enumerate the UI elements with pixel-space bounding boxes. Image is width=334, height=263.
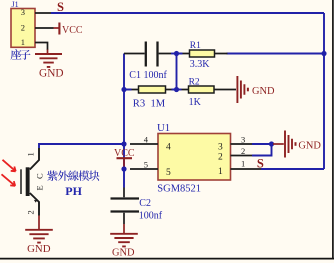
wire S net top bbox=[51, 12, 324, 14]
svg-text:2: 2 bbox=[26, 210, 36, 214]
wire U1 pin3 to junction bbox=[252, 143, 272, 145]
svg-text:GND: GND bbox=[27, 243, 51, 255]
svg-text:4: 4 bbox=[166, 142, 171, 152]
svg-text:2: 2 bbox=[218, 153, 223, 163]
svg-text:GND: GND bbox=[252, 86, 275, 97]
svg-text:S: S bbox=[57, 0, 64, 14]
svg-text:5: 5 bbox=[144, 160, 148, 170]
capacitor C1 bbox=[124, 42, 177, 67]
svg-text:R1: R1 bbox=[190, 41, 201, 51]
wire PH collector to node bbox=[39, 144, 124, 148]
op-amp U1 bbox=[158, 134, 231, 181]
svg-text:2: 2 bbox=[241, 146, 245, 156]
ground GND at R2 (rotated) bbox=[237, 76, 275, 103]
junction pin5/VCC bbox=[121, 166, 126, 171]
light arrows bbox=[2, 160, 16, 186]
junction R3/R2 bbox=[174, 87, 179, 92]
ground GND at C2 bbox=[110, 224, 138, 259]
U1 pin 1 bbox=[218, 158, 261, 177]
svg-text:3: 3 bbox=[241, 134, 245, 144]
power VCC at J1 pin2 bbox=[54, 23, 83, 36]
label 紫外线模块 bbox=[47, 171, 99, 181]
junction C1/R1 bbox=[174, 51, 179, 56]
svg-text:SGM8521: SGM8521 bbox=[157, 183, 201, 194]
label 座子 bbox=[11, 49, 31, 60]
junction pin4/collector bbox=[121, 141, 126, 146]
svg-text:PH: PH bbox=[65, 184, 82, 198]
svg-text:5: 5 bbox=[166, 168, 171, 178]
connector J1 bbox=[11, 7, 54, 50]
svg-text:R2: R2 bbox=[189, 77, 200, 87]
resistor R1 bbox=[177, 50, 325, 57]
svg-text:1: 1 bbox=[26, 152, 36, 156]
svg-text:E: E bbox=[35, 185, 45, 190]
ground GND at U1 (rotated) bbox=[273, 131, 321, 158]
svg-text:J1: J1 bbox=[12, 0, 19, 9]
svg-text:GND: GND bbox=[298, 141, 321, 152]
power VCC at U1 pin5 node bbox=[114, 148, 135, 169]
wire S net right vertical bbox=[323, 13, 325, 169]
junction pin2/pin3 bbox=[269, 141, 274, 146]
U1 pin 3 bbox=[218, 134, 252, 152]
svg-text:C1 100nf: C1 100nf bbox=[129, 70, 167, 81]
U1 pin 5 bbox=[130, 160, 171, 178]
wire node B vertical bbox=[176, 54, 178, 90]
resistor R3 bbox=[124, 86, 177, 93]
svg-text:R3 1M: R3 1M bbox=[133, 98, 166, 109]
junction R3 left bbox=[121, 87, 126, 92]
svg-text:GND: GND bbox=[39, 67, 63, 79]
svg-text:1: 1 bbox=[218, 167, 223, 177]
svg-text:3.3K: 3.3K bbox=[190, 59, 211, 70]
svg-text:U1: U1 bbox=[157, 122, 170, 134]
ground GND at PH emitter bbox=[25, 216, 53, 256]
junction R1/S vertical bbox=[321, 51, 326, 56]
svg-text:1: 1 bbox=[21, 37, 25, 47]
phototransistor PH bbox=[21, 148, 39, 216]
wire U1 pin2 up to junction bbox=[252, 144, 272, 156]
svg-text:GND: GND bbox=[112, 248, 135, 259]
svg-text:1K: 1K bbox=[189, 97, 202, 108]
svg-text:100nf: 100nf bbox=[139, 211, 163, 222]
svg-text:C2: C2 bbox=[139, 198, 151, 209]
svg-text:VCC: VCC bbox=[62, 25, 83, 36]
svg-text:C: C bbox=[35, 173, 45, 179]
svg-text:3: 3 bbox=[21, 7, 25, 17]
ground GND at J1 pin1 bbox=[35, 50, 64, 80]
svg-text:2: 2 bbox=[21, 22, 25, 32]
capacitor C2 bbox=[111, 188, 140, 225]
svg-text:3: 3 bbox=[218, 142, 223, 152]
U1 pin 2 bbox=[218, 146, 252, 163]
resistor R2 bbox=[177, 86, 237, 93]
wire S net bottom bbox=[261, 168, 324, 170]
wire left vertical node bbox=[123, 54, 125, 188]
U1 pin 4 bbox=[130, 135, 171, 153]
svg-text:1: 1 bbox=[241, 158, 245, 168]
